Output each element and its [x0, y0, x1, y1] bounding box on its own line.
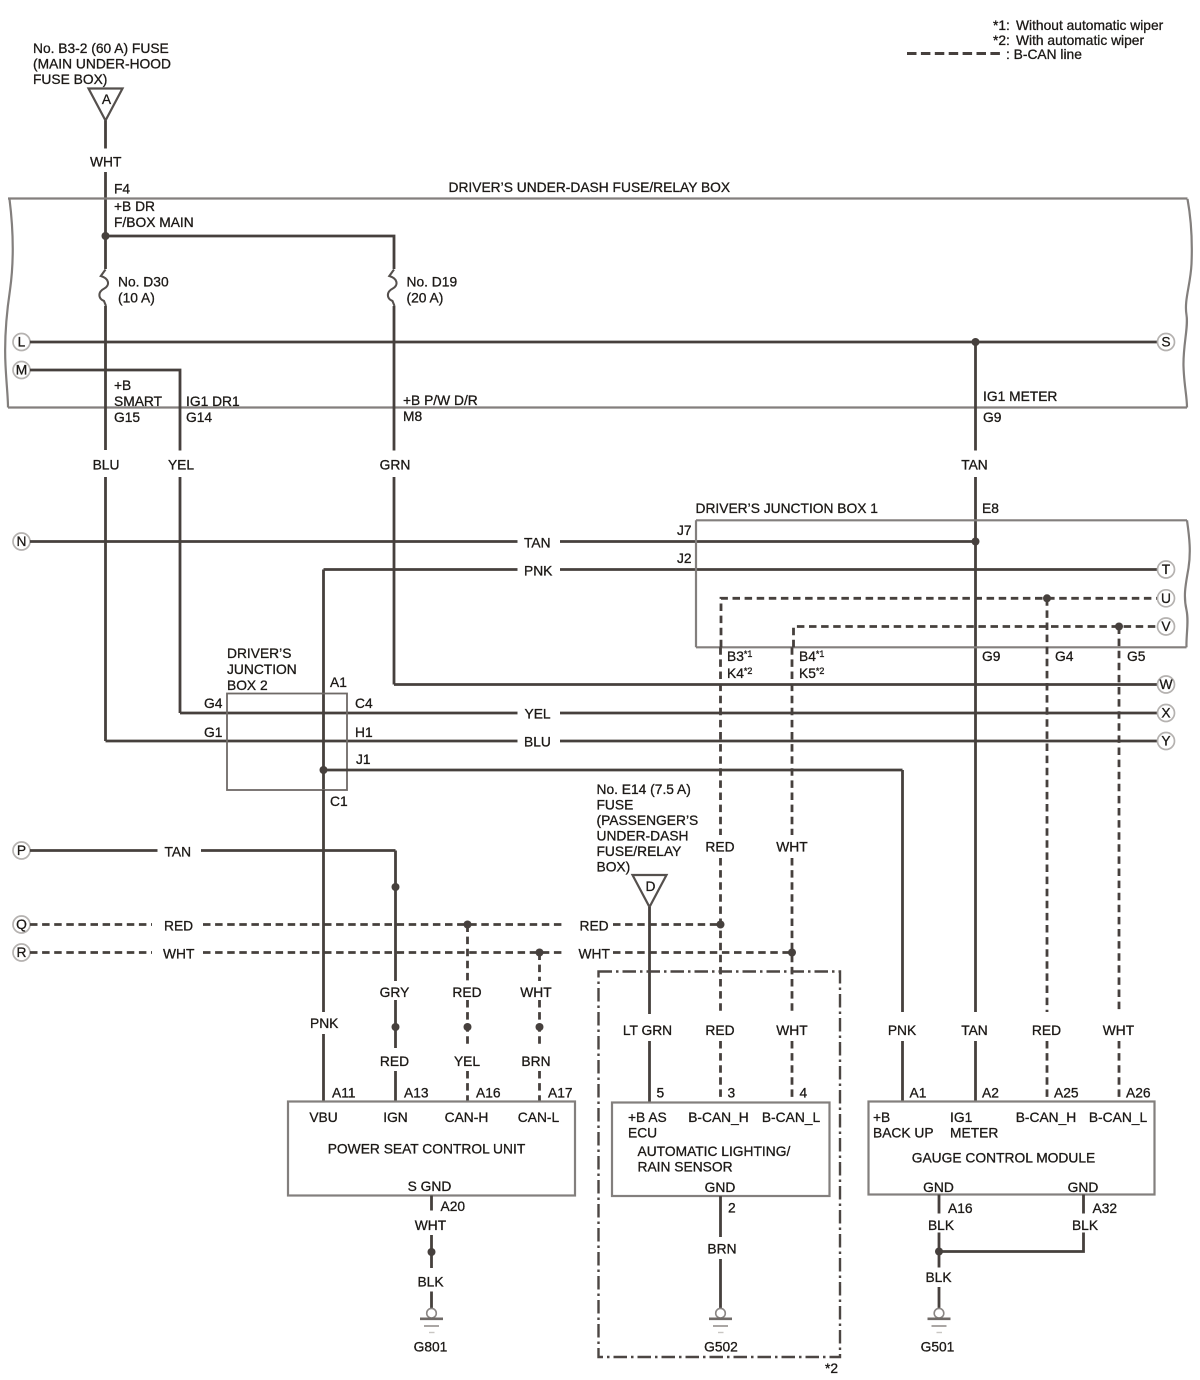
svg-text:ECU: ECU — [628, 1126, 657, 1141]
svg-text:G14: G14 — [186, 410, 212, 425]
svg-text:IG1 DR1: IG1 DR1 — [186, 394, 240, 409]
svg-text:G5: G5 — [1127, 649, 1146, 664]
wire WHT/BLK to ground G801 — [430, 1235, 433, 1268]
svg-text:PNK: PNK — [524, 564, 553, 579]
node junction on V row — [1115, 623, 1123, 631]
svg-text:UNDER-DASH: UNDER-DASH — [597, 829, 689, 844]
svg-text:TAN: TAN — [961, 1023, 988, 1038]
svg-text:POWER SEAT CONTROL UNIT: POWER SEAT CONTROL UNIT — [328, 1142, 526, 1157]
node junction IG1 METER branch — [972, 338, 980, 346]
svg-text:A25: A25 — [1054, 1086, 1079, 1101]
wire TAN from connector P — [30, 849, 158, 852]
svg-text:BLK: BLK — [1072, 1218, 1099, 1233]
svg-text:L: L — [18, 335, 26, 350]
svg-text:GRN: GRN — [380, 458, 411, 473]
wire into fuse box pin F4 — [104, 172, 107, 269]
wire pin A32 stub — [1082, 1195, 1085, 1214]
svg-text:RED: RED — [164, 919, 193, 934]
connector L — [13, 334, 30, 351]
node junction Q row at A16 drop — [464, 921, 472, 929]
svg-text:G9: G9 — [983, 410, 1002, 425]
wire GRN row to connector W — [394, 683, 1158, 686]
connector M — [13, 362, 30, 379]
wire dashed RED/YEL vertical to pin A16 — [466, 925, 469, 982]
svg-text:J1: J1 — [356, 752, 371, 767]
svg-text:D: D — [646, 879, 656, 894]
connector W — [1158, 676, 1175, 693]
svg-text:G502: G502 — [704, 1340, 738, 1355]
svg-text:: B-CAN line: : B-CAN line — [1006, 47, 1082, 62]
svg-text:TAN: TAN — [961, 458, 988, 473]
svg-text:R: R — [17, 945, 27, 960]
svg-text:G801: G801 — [414, 1340, 448, 1355]
svg-text:GND: GND — [923, 1180, 954, 1195]
wire dashed WHT vertical B4/K5 to sensor pin 4 — [791, 647, 794, 835]
wire BRN to ground G502 — [719, 1259, 722, 1309]
svg-text:No. E14 (7.5 A): No. E14 (7.5 A) — [597, 782, 691, 797]
connector V — [1158, 618, 1175, 635]
svg-text:CAN-L: CAN-L — [518, 1110, 560, 1125]
svg-text:No. B3-2 (60 A) FUSE: No. B3-2 (60 A) FUSE — [33, 41, 169, 56]
svg-text:+B AS: +B AS — [628, 1110, 667, 1125]
connector X — [1158, 705, 1175, 722]
svg-text:A20: A20 — [441, 1199, 466, 1214]
svg-text:BRN: BRN — [521, 1054, 550, 1069]
box GAUGE CONTROL MODULE — [869, 1102, 1155, 1195]
svg-text:A16: A16 — [948, 1201, 973, 1216]
svg-text:BOX 2: BOX 2 — [227, 678, 268, 693]
svg-text:SMART: SMART — [114, 394, 163, 409]
svg-text:BLK: BLK — [417, 1275, 444, 1290]
wire dashed B-CAN H to connector U — [721, 598, 1158, 647]
svg-text:METER: METER — [950, 1126, 998, 1141]
ground G801 — [427, 1308, 437, 1318]
svg-text:GAUGE CONTROL MODULE: GAUGE CONTROL MODULE — [912, 1151, 1095, 1166]
wire TAN from connector N to J7 — [30, 540, 518, 543]
svg-text:B-CAN_H: B-CAN_H — [1016, 1110, 1077, 1125]
wire PNK vertical from J2 row into junction box 2 pin A1 — [322, 570, 325, 791]
svg-text:G1: G1 — [204, 725, 222, 740]
svg-text:BLK: BLK — [928, 1218, 955, 1233]
svg-text:PNK: PNK — [888, 1023, 917, 1038]
connector D (triangle) — [633, 875, 667, 907]
wire pin A16 stub — [938, 1195, 941, 1214]
svg-text:+B DR: +B DR — [114, 199, 155, 214]
fuse No. D30 (10 A) — [99, 270, 108, 307]
wire branch to fuse D19 — [106, 236, 395, 269]
node junction BLK — [935, 1248, 943, 1256]
svg-text:FUSE: FUSE — [597, 798, 634, 813]
svg-text:No. D30: No. D30 — [118, 275, 169, 290]
svg-text:RED: RED — [452, 985, 481, 1000]
svg-text:B-CAN_L: B-CAN_L — [762, 1110, 821, 1125]
svg-text:G9: G9 — [982, 649, 1001, 664]
wire GRY/RED vertical from P row to pin A13 — [394, 851, 397, 982]
svg-text:WHT: WHT — [579, 947, 611, 962]
svg-text:A1: A1 — [330, 675, 347, 690]
connector Q — [13, 916, 30, 933]
svg-text:IGN: IGN — [383, 1110, 408, 1125]
svg-text:DRIVER’S JUNCTION BOX 1: DRIVER’S JUNCTION BOX 1 — [696, 501, 878, 516]
svg-text:VBU: VBU — [309, 1110, 337, 1125]
wire PNK vertical from C1 to pin A11 — [322, 790, 325, 1012]
svg-text:5: 5 — [657, 1086, 665, 1101]
wire dashed WHT/BRN vertical to pin A17 — [538, 953, 541, 982]
svg-text:C4: C4 — [355, 696, 373, 711]
svg-text:*2: *2 — [825, 1361, 838, 1376]
node junction R row at A17 drop — [536, 949, 544, 957]
svg-text:A17: A17 — [548, 1086, 573, 1101]
svg-text:BRN: BRN — [707, 1242, 736, 1257]
svg-text:A: A — [102, 92, 112, 107]
connector R — [13, 944, 30, 961]
svg-text:YEL: YEL — [525, 707, 551, 722]
wire BLU vertical from fuse D30 to pin G15 — [104, 306, 107, 450]
svg-text:TAN: TAN — [524, 536, 551, 551]
svg-text:(MAIN UNDER-HOOD: (MAIN UNDER-HOOD — [33, 57, 171, 72]
wire PNK row J2 to connector T — [324, 568, 518, 571]
node junction J7/E8 — [972, 538, 980, 546]
connector P — [13, 842, 30, 859]
svg-text:A2: A2 — [982, 1086, 999, 1101]
svg-text:J2: J2 — [677, 551, 692, 566]
fuse No. D19 (20 A) — [388, 270, 397, 307]
svg-text:*1:: *1: — [993, 18, 1010, 33]
wire BLK from A32 joining A16 — [939, 1233, 1084, 1252]
svg-text:RED: RED — [380, 1054, 409, 1069]
svg-text:JUNCTION: JUNCTION — [227, 662, 297, 677]
wire pin 2 stub — [719, 1196, 722, 1237]
node junction at F4 branch — [102, 232, 110, 240]
svg-text:Q: Q — [16, 917, 27, 932]
svg-text:WHT: WHT — [415, 1218, 447, 1233]
svg-text:*2:: *2: — [993, 33, 1010, 48]
svg-text:BOX): BOX) — [597, 860, 631, 875]
wire BLK from A16 down — [938, 1233, 941, 1268]
legend B-CAN dashed line sample — [907, 52, 1004, 55]
wire dashed RED vertical G4 to gauge pin A25 — [1046, 598, 1049, 1012]
svg-text:IG1 METER: IG1 METER — [983, 389, 1057, 404]
svg-text:GND: GND — [705, 1180, 736, 1195]
wire dashed WHT from connector R — [30, 951, 152, 954]
svg-text:2: 2 — [728, 1201, 736, 1216]
svg-text:A16: A16 — [476, 1086, 501, 1101]
svg-text:F4: F4 — [114, 182, 130, 197]
svg-text:(10 A): (10 A) — [118, 291, 155, 306]
node junction R row at WHT vertical — [788, 949, 796, 957]
svg-text:BLK: BLK — [925, 1270, 952, 1285]
wire BLU row to connector Y — [106, 740, 518, 743]
svg-text:WHT: WHT — [1103, 1023, 1135, 1038]
svg-text:IG1: IG1 — [950, 1110, 972, 1125]
svg-text:Without automatic wiper: Without automatic wiper — [1016, 18, 1164, 33]
box AUTOMATIC LIGHTING/RAIN SENSOR — [612, 1103, 830, 1197]
svg-text:N: N — [17, 534, 27, 549]
wire pin A20 stub — [430, 1196, 433, 1211]
svg-text:A13: A13 — [404, 1086, 429, 1101]
svg-text:RED: RED — [705, 1023, 734, 1038]
connector A (triangle) — [89, 89, 123, 121]
svg-text:G4: G4 — [204, 696, 223, 711]
svg-text:RAIN SENSOR: RAIN SENSOR — [638, 1160, 733, 1175]
svg-text:BLU: BLU — [524, 735, 551, 750]
svg-text:M8: M8 — [403, 409, 422, 424]
svg-text:LT GRN: LT GRN — [623, 1023, 672, 1038]
svg-text:With automatic wiper: With automatic wiper — [1016, 33, 1144, 48]
wire YEL vertical down to junction box 2 row G4 — [179, 477, 182, 713]
node junction Q row at RED vertical — [717, 921, 725, 929]
wire GRN vertical down to W row — [393, 477, 396, 685]
svg-text:A26: A26 — [1126, 1086, 1151, 1101]
wire dashed WHT vertical G5 to gauge pin A26 — [1118, 627, 1121, 1013]
svg-text:E8: E8 — [982, 501, 999, 516]
svg-text:Y: Y — [1161, 734, 1170, 749]
svg-text:WHT: WHT — [776, 1023, 808, 1038]
wire J1 PNK branch to gauge module — [324, 769, 903, 772]
svg-text:+B P/W D/R: +B P/W D/R — [403, 393, 478, 408]
svg-text:CAN-H: CAN-H — [445, 1110, 489, 1125]
svg-text:FUSE/RELAY: FUSE/RELAY — [597, 844, 682, 859]
svg-text:X: X — [1161, 706, 1170, 721]
ground G502 — [716, 1308, 726, 1318]
svg-text:U: U — [1161, 591, 1171, 606]
svg-text:GND: GND — [1068, 1180, 1099, 1195]
enclosure dashed *2 around rain sensor — [599, 972, 841, 1358]
wire IG1 METER vertical to pin G9 — [974, 342, 977, 451]
svg-text:BLU: BLU — [93, 458, 120, 473]
svg-text:DRIVER’S: DRIVER’S — [227, 646, 291, 661]
svg-text:A32: A32 — [1093, 1201, 1118, 1216]
svg-text:C1: C1 — [330, 794, 348, 809]
svg-text:PNK: PNK — [310, 1016, 339, 1031]
wire YEL row to connector X — [180, 712, 518, 715]
wire from connector L to connector S — [30, 341, 1158, 344]
svg-text:S: S — [1161, 335, 1170, 350]
svg-text:B-CAN_L: B-CAN_L — [1089, 1110, 1148, 1125]
svg-text:T: T — [1162, 562, 1171, 577]
wire PNK vertical to gauge pin A1 — [901, 770, 904, 1012]
connector N — [13, 533, 30, 550]
svg-text:AUTOMATIC LIGHTING/: AUTOMATIC LIGHTING/ — [638, 1144, 791, 1159]
svg-text:(PASSENGER’S: (PASSENGER’S — [597, 813, 699, 828]
wire GRN vertical from fuse D19 to pin M8 — [393, 306, 396, 451]
connector U — [1158, 590, 1175, 607]
connector S — [1158, 334, 1175, 351]
svg-text:+B: +B — [873, 1110, 890, 1125]
svg-text:B-CAN_H: B-CAN_H — [688, 1110, 749, 1125]
svg-text:G4: G4 — [1055, 649, 1074, 664]
wire dashed RED from connector Q — [30, 923, 152, 926]
node junction J1 branch — [320, 766, 328, 774]
wire WHT from connector A — [104, 121, 107, 149]
wire TAN vertical down through junction box 1 — [974, 477, 977, 1012]
svg-text:M: M — [16, 363, 28, 378]
svg-text:TAN: TAN — [165, 845, 192, 860]
svg-text:YEL: YEL — [168, 458, 194, 473]
svg-text:V: V — [1161, 619, 1171, 634]
connector Y — [1158, 733, 1175, 750]
svg-text:S GND: S GND — [408, 1179, 452, 1194]
node junction on U row — [1043, 594, 1051, 602]
wire from connector M to pin G14 — [30, 370, 180, 451]
wire BLU vertical down to junction box 2 row G1 — [104, 477, 107, 741]
svg-text:BACK UP: BACK UP — [873, 1126, 934, 1141]
svg-text:WHT: WHT — [520, 985, 552, 1000]
svg-text:H1: H1 — [355, 725, 373, 740]
ground G501 — [934, 1308, 944, 1318]
wire LT GRN from connector D to sensor pin 5 — [648, 907, 651, 1014]
svg-text:No. D19: No. D19 — [407, 275, 458, 290]
svg-text:(20 A): (20 A) — [407, 291, 444, 306]
svg-text:3: 3 — [728, 1086, 736, 1101]
svg-text:RED: RED — [1032, 1023, 1061, 1038]
svg-text:RED: RED — [705, 840, 734, 855]
svg-text:WHT: WHT — [90, 155, 122, 170]
wire dashed B-CAN L to connector V — [794, 627, 1158, 648]
svg-text:P: P — [17, 843, 26, 858]
connector T — [1158, 561, 1175, 578]
svg-text:A1: A1 — [910, 1086, 927, 1101]
svg-text:DRIVER’S UNDER-DASH FUSE/RELAY: DRIVER’S UNDER-DASH FUSE/RELAY BOX — [449, 180, 731, 195]
box POWER SEAT CONTROL UNIT — [288, 1102, 575, 1196]
svg-text:+B: +B — [114, 378, 131, 393]
svg-text:RED: RED — [580, 919, 609, 934]
svg-text:G501: G501 — [921, 1340, 955, 1355]
svg-text:G15: G15 — [114, 410, 140, 425]
svg-text:A11: A11 — [332, 1086, 356, 1101]
svg-text:WHT: WHT — [776, 840, 808, 855]
svg-text:4: 4 — [800, 1086, 808, 1101]
svg-text:J7: J7 — [677, 523, 692, 538]
svg-text:W: W — [1159, 677, 1172, 692]
svg-text:FUSE BOX): FUSE BOX) — [33, 72, 107, 87]
svg-text:YEL: YEL — [454, 1054, 480, 1069]
svg-text:F/BOX MAIN: F/BOX MAIN — [114, 215, 194, 230]
svg-text:WHT: WHT — [163, 947, 195, 962]
wire dashed RED vertical B3/K4 to sensor pin 3 — [719, 647, 722, 835]
svg-text:GRY: GRY — [380, 985, 410, 1000]
wire BLK to ground G501 — [938, 1287, 941, 1309]
